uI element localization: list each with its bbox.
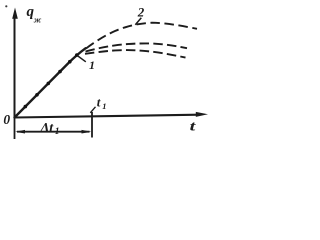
svg-text:1: 1	[55, 127, 60, 137]
svg-text:1: 1	[89, 58, 95, 72]
svg-text:2: 2	[137, 5, 145, 20]
dashed curve top (family 2)	[86, 23, 197, 49]
x-axis	[15, 112, 209, 118]
t1 extension line	[91, 112, 93, 138]
dashed curve middle	[86, 43, 188, 51]
svg-text:0: 0	[3, 112, 10, 127]
svg-text:1: 1	[102, 101, 106, 111]
svg-text:ж: ж	[34, 16, 42, 25]
y-axis	[12, 8, 18, 119]
data dots on curve 1	[24, 53, 79, 108]
label t1	[97, 94, 107, 111]
svg-text:t: t	[190, 117, 197, 133]
label delta t1	[40, 121, 60, 137]
label 2 pointer	[135, 18, 141, 25]
t1 tick	[90, 107, 95, 113]
scan speck top-left	[5, 5, 7, 7]
label 1 pointer	[77, 56, 86, 62]
dashed curve bottom	[85, 50, 186, 58]
svg-text:t: t	[97, 94, 101, 109]
dimension arrow delta t1	[15, 130, 91, 134]
origin extension line	[14, 118, 16, 140]
svg-text:Δt: Δt	[40, 121, 55, 136]
y-axis label q_zh	[27, 4, 42, 25]
curve 1 (solid rising line)	[15, 48, 86, 117]
